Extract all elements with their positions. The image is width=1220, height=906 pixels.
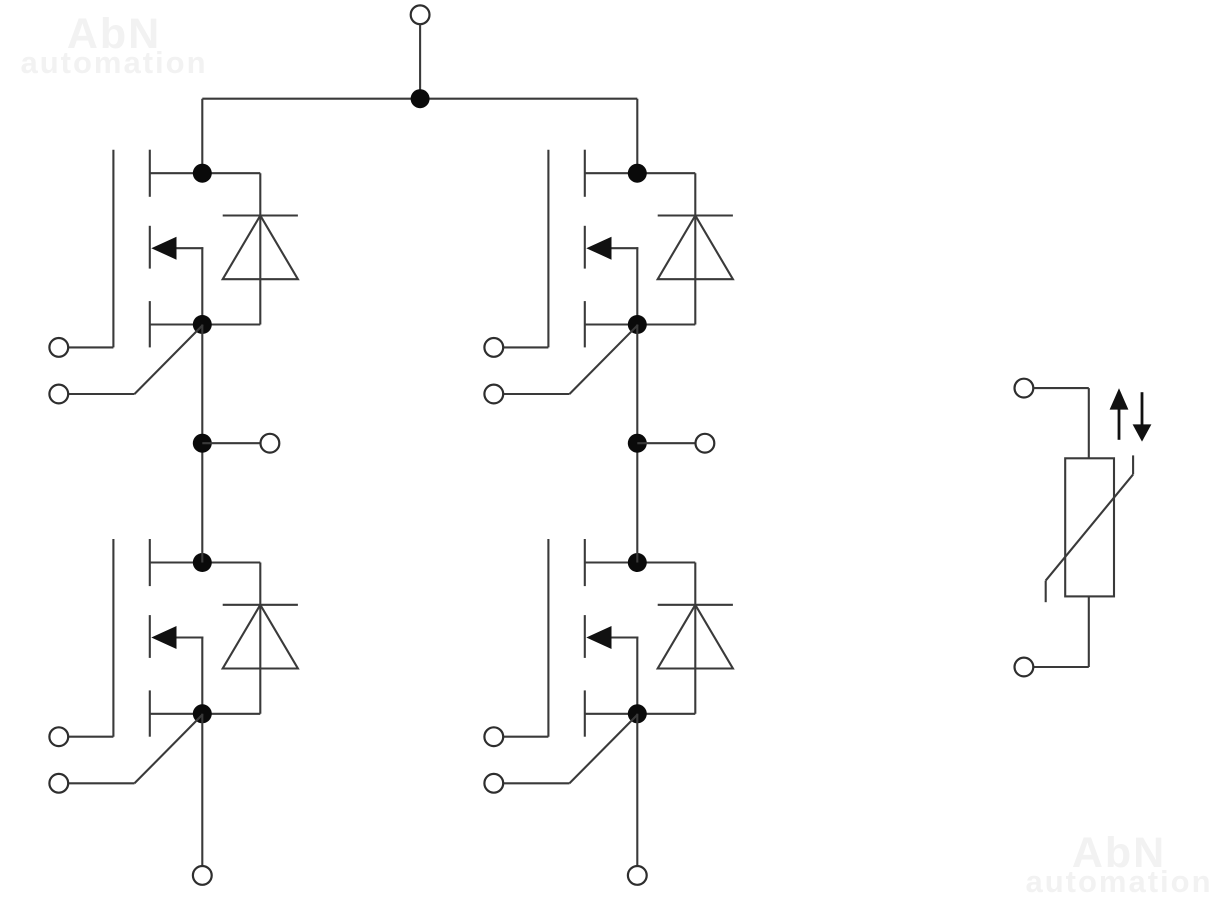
- wire: phase node U to output terminal: [202, 442, 260, 444]
- junction dot: source of Q1: [193, 315, 212, 334]
- wire: top DC bus rail: [202, 98, 637, 100]
- junction dot: phase node V: [628, 434, 647, 453]
- terminal S4: source sense of Q4: [484, 774, 503, 793]
- junction dot: drain of Q2: [628, 164, 647, 183]
- junction dot: source of Q3: [193, 704, 212, 723]
- junction dot: P bus node: [411, 89, 430, 108]
- junction dot: source of Q2: [628, 315, 647, 334]
- temperature up arrow: [1110, 388, 1129, 440]
- wire: gate lead of Q2: [503, 346, 548, 348]
- terminal G2: gate of Q2: [484, 338, 503, 357]
- wire: thermistor top lead: [1034, 388, 1089, 458]
- body diode D4 of Q4: [658, 563, 733, 714]
- wire: gate lead of Q1: [68, 346, 113, 348]
- terminal T2: thermistor bottom: [1015, 658, 1034, 677]
- wire: Q3 source down to negative terminal: [201, 714, 203, 866]
- junction dot: drain of Q4: [628, 553, 647, 572]
- wire: phase node V to output terminal: [637, 442, 695, 444]
- terminal P: positive DC bus input: [411, 5, 430, 24]
- thermistor RT1 (NTC) body: [1046, 455, 1133, 602]
- resistance down arrow: [1133, 392, 1152, 441]
- wire: Q2 source to Q4 drain (phase leg V): [636, 325, 638, 563]
- terminal N1: negative DC bus: [193, 866, 212, 885]
- junction dot: source of Q4: [628, 704, 647, 723]
- body diode D1 of Q1: [223, 173, 298, 324]
- wire: bus drop to Q2 drain: [636, 99, 638, 174]
- wire: source sense lead of Q4: [503, 714, 638, 783]
- wire: P terminal stem: [419, 24, 421, 98]
- terminal S2: source sense of Q2: [484, 385, 503, 404]
- wire: source sense lead of Q2: [503, 325, 638, 394]
- watermark bottom-right: AbN automation: [1019, 832, 1219, 897]
- terminal S3: source sense of Q3: [49, 774, 68, 793]
- terminal G3: gate of Q3: [49, 727, 68, 746]
- terminal OUT2: phase output V: [696, 434, 715, 453]
- wire: gate lead of Q3: [68, 736, 113, 738]
- transistor Q3: [113, 539, 260, 737]
- wire: source sense lead of Q3: [68, 714, 203, 783]
- transistor Q1: [113, 150, 260, 348]
- body diode D3 of Q3: [223, 563, 298, 714]
- wire: Q1 source to Q3 drain (phase leg U): [201, 325, 203, 563]
- junction dot: drain of Q3: [193, 553, 212, 572]
- terminal N2: negative DC bus: [628, 866, 647, 885]
- wire: gate lead of Q4: [503, 736, 548, 738]
- terminal S1: source sense of Q1: [49, 385, 68, 404]
- wire: Q4 source down to negative terminal: [636, 714, 638, 866]
- transistor Q2: [548, 150, 695, 348]
- body diode D2 of Q2: [658, 173, 733, 324]
- terminal G1: gate of Q1: [49, 338, 68, 357]
- junction dot: drain of Q1: [193, 164, 212, 183]
- terminal OUT1: phase output U: [261, 434, 280, 453]
- wire: bus drop to Q1 drain: [201, 99, 203, 174]
- junction dot: phase node U: [193, 434, 212, 453]
- wire: source sense lead of Q1: [68, 325, 203, 394]
- terminal G4: gate of Q4: [484, 727, 503, 746]
- watermark top-left: AbN automation: [14, 13, 214, 78]
- wire: thermistor bottom lead: [1034, 596, 1089, 667]
- transistor Q4: [548, 539, 695, 737]
- terminal T1: thermistor top: [1015, 379, 1034, 398]
